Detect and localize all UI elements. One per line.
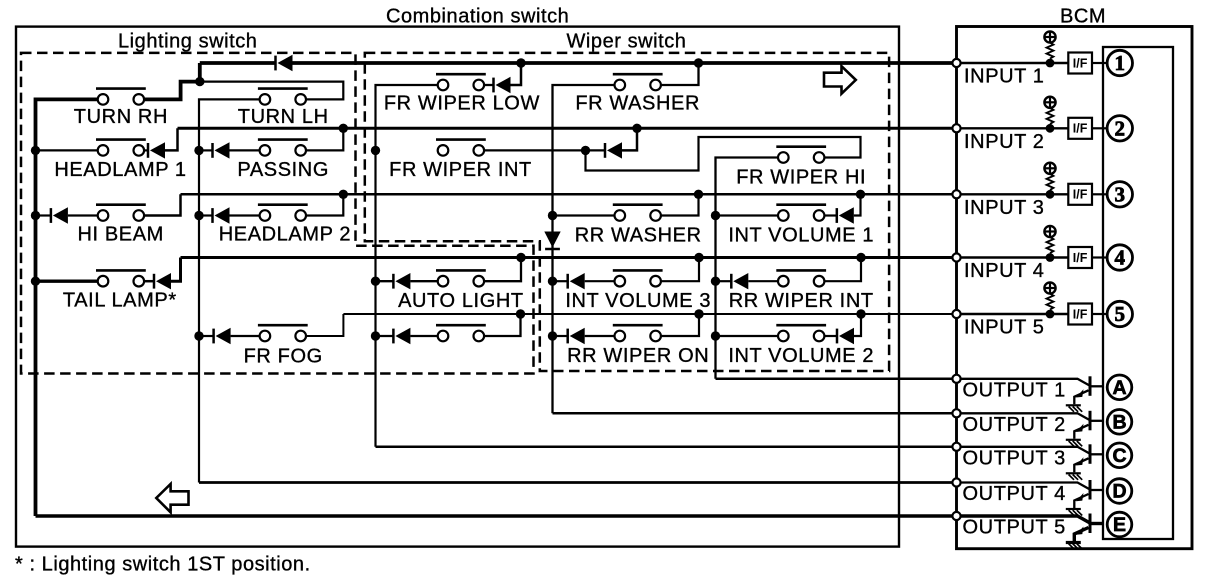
svg-text:INPUT 3: INPUT 3 xyxy=(964,197,1045,219)
svg-text:TURN LH: TURN LH xyxy=(238,106,329,128)
wire bus 5 to INT VOLUME 1 xyxy=(716,214,779,216)
wire RR WASHER up to INPUT 3 xyxy=(661,194,699,215)
pin B circled xyxy=(1107,410,1132,435)
svg-text:OUTPUT 2: OUTPUT 2 xyxy=(963,414,1066,436)
node OUTPUT 4 xyxy=(952,478,960,486)
pin 2 circled xyxy=(1107,116,1132,141)
ground OUTPUT 2 xyxy=(1066,440,1082,447)
wire INT VOLUME 1 to diode xyxy=(824,214,837,216)
wire OUTPUT 1 line xyxy=(716,378,957,381)
junction TURN RH / TURN LH xyxy=(195,77,204,86)
wire bus from FR WIPER HI down to OUTPUT 1 xyxy=(716,158,779,379)
wire diode to AUTO LIGHT xyxy=(410,280,437,282)
diode on INPUT 1 line xyxy=(276,55,293,71)
wire INPUT 3 line xyxy=(181,193,957,196)
ground OUTPUT 4 xyxy=(1066,509,1082,516)
combination switch outer box xyxy=(16,27,899,547)
I/F box INPUT 3 xyxy=(1068,184,1092,205)
diode from INPUT 2 branch xyxy=(605,142,622,158)
wire TURN RH to INPUT 1 junction xyxy=(143,63,199,99)
wire I/F to pin 3 xyxy=(1092,193,1107,195)
transistor OUTPUT 4 xyxy=(957,480,1104,508)
diode before RR WIPER INT xyxy=(731,273,748,289)
wire INPUT 2 line xyxy=(178,127,957,130)
wire PASSING up to INPUT 2 xyxy=(306,128,343,150)
wire diode to HI BEAM xyxy=(68,214,98,216)
wire FR WIPER INT to junction xyxy=(484,149,586,151)
wire INPUT 1 feed from TURN RH junction to diode xyxy=(200,61,276,65)
diode before FR FOG xyxy=(214,328,231,344)
node INPUT 4 xyxy=(952,253,960,261)
junction bus 3 AUTO LIGHT xyxy=(371,277,380,286)
switch TURN RH xyxy=(96,89,146,105)
svg-text:I/F: I/F xyxy=(1073,307,1088,321)
junction power on INPUT 1 xyxy=(1046,59,1055,68)
wire HI BEAM up to INPUT 3 xyxy=(143,194,180,215)
junction bus 5 INT VOLUME 2 xyxy=(711,331,720,340)
pin 4 circled xyxy=(1107,245,1132,270)
svg-text:E: E xyxy=(1113,514,1126,536)
wire FR WIPER LOW diode up to INPUT 1 xyxy=(511,63,522,85)
wire INPUT 4 inside BCM xyxy=(957,256,1069,258)
svg-text:TAIL LAMP*: TAIL LAMP* xyxy=(63,290,177,312)
svg-text:I/F: I/F xyxy=(1073,56,1088,70)
node OUTPUT 2 xyxy=(952,409,960,417)
junction power on INPUT 2 xyxy=(1046,124,1055,133)
junction left bus TAIL LAMP xyxy=(31,277,40,286)
ground OUTPUT 3 xyxy=(1066,473,1082,480)
junction left bus HI BEAM xyxy=(31,211,40,220)
svg-text:FR WASHER: FR WASHER xyxy=(575,93,700,115)
diode after INT VOLUME 1 xyxy=(837,207,854,223)
transistor OUTPUT 3 xyxy=(957,444,1104,472)
wire bus 2 to FR FOG diode xyxy=(199,335,214,337)
svg-text:A: A xyxy=(1112,377,1126,399)
wire bus 4 to INT VOLUME 3 diode xyxy=(553,280,568,282)
switch FR WIPER INT xyxy=(436,140,486,156)
diode before PASSING xyxy=(213,142,230,158)
junction unlabeled switch on INPUT 5 xyxy=(516,309,525,318)
svg-text:OUTPUT 3: OUTPUT 3 xyxy=(963,447,1066,469)
wire bus 2 to PASSING diode xyxy=(199,149,213,151)
wire FR WASHER up to INPUT 1 xyxy=(661,63,699,85)
svg-text:INPUT 5: INPUT 5 xyxy=(964,317,1045,339)
switch FR WASHER xyxy=(613,74,663,90)
wire I/F to pin 5 xyxy=(1092,313,1107,315)
diode after TAIL LAMP xyxy=(154,273,171,289)
svg-text:INT VOLUME 1: INT VOLUME 1 xyxy=(728,225,874,247)
junction bus 5 RR WIPER INT xyxy=(711,277,720,286)
Lighting switch dashed box xyxy=(21,53,534,374)
wire INT VOLUME 2 diode up to INPUT 5 xyxy=(854,314,861,336)
switch HI BEAM xyxy=(96,205,146,221)
junction RR WASHER on INPUT 3 xyxy=(694,190,703,199)
junction power on INPUT 3 xyxy=(1046,190,1055,199)
wire OUTPUT 2 line xyxy=(553,412,957,415)
diode before HI BEAM xyxy=(51,207,68,223)
wire junction to diode bar xyxy=(586,149,606,151)
junction bus 4 RR WIPER ON xyxy=(548,331,557,340)
wire bus 3 to AUTO LIGHT diode xyxy=(376,280,394,282)
power symbol INPUT 1 xyxy=(1044,31,1057,59)
wire diode to RR WIPER INT xyxy=(748,280,778,282)
wire INPUT 5 inside BCM xyxy=(957,313,1069,315)
svg-text:INPUT 2: INPUT 2 xyxy=(964,131,1045,153)
svg-text:INT VOLUME 2: INT VOLUME 2 xyxy=(728,345,874,367)
junction diode branch on INPUT 2 xyxy=(632,124,641,133)
svg-text:C: C xyxy=(1112,445,1126,467)
switch RR WIPER INT xyxy=(776,270,826,286)
junction power on INPUT 5 xyxy=(1046,310,1055,319)
power symbol INPUT 3 xyxy=(1044,162,1057,190)
svg-text:* : Lighting switch 1ST positi: * : Lighting switch 1ST position. xyxy=(15,554,311,576)
node OUTPUT 3 xyxy=(952,443,960,451)
wire bus 3 to lower switch diode xyxy=(376,335,394,337)
svg-text:TURN RH: TURN RH xyxy=(74,106,168,128)
wire I/F to pin 2 xyxy=(1092,127,1107,129)
switch TAIL LAMP xyxy=(96,270,146,286)
svg-text:RR WIPER ON: RR WIPER ON xyxy=(567,345,709,367)
transistor OUTPUT 1 xyxy=(957,376,1104,404)
wire diode to INT VOLUME 3 xyxy=(585,280,615,282)
ground OUTPUT 5 xyxy=(1066,543,1082,550)
wire INPUT 1 line to BCM xyxy=(293,61,957,65)
diode after INT VOLUME 2 xyxy=(837,328,854,344)
wire bus from TURN LH down to OUTPUT 4 xyxy=(199,99,260,482)
switch unlabeled (auto light 2) xyxy=(436,325,486,341)
junction bus 3 lower switch xyxy=(371,331,380,340)
wire bus 4 to RR WASHER xyxy=(553,214,615,216)
junction HEADLAMP 2 on INPUT 3 xyxy=(339,190,348,199)
svg-text:FR WIPER HI: FR WIPER HI xyxy=(736,167,866,189)
svg-text:FR WIPER INT: FR WIPER INT xyxy=(389,159,532,181)
junction bus 4 RR WASHER xyxy=(548,211,557,220)
wire bus 4 to RR WIPER ON diode xyxy=(553,335,568,337)
junction bus 4 INT VOLUME 3 xyxy=(548,277,557,286)
node INPUT 5 xyxy=(952,310,960,318)
pin 3 circled xyxy=(1107,182,1132,207)
svg-text:3: 3 xyxy=(1115,182,1126,206)
switch FR WIPER LOW xyxy=(436,74,486,90)
svg-text:INPUT 4: INPUT 4 xyxy=(964,260,1045,282)
wire INPUT 3 inside BCM xyxy=(957,193,1069,195)
power symbol INPUT 5 xyxy=(1044,282,1057,310)
wire left bus to TAIL LAMP xyxy=(36,280,98,283)
switch INT VOLUME 2 xyxy=(776,325,826,341)
switch TURN LH xyxy=(258,89,308,105)
wire bus from FR WASHER down to OUTPUT 2 xyxy=(553,85,615,413)
switch FR FOG xyxy=(258,325,308,341)
junction PASSING on INPUT 2 xyxy=(339,124,348,133)
svg-text:HI BEAM: HI BEAM xyxy=(77,224,163,246)
wire bus 5 to RR WIPER INT diode xyxy=(716,280,732,282)
wire RR WIPER INT up to INPUT 4 xyxy=(824,258,861,282)
switch HEADLAMP 1 xyxy=(96,140,146,156)
svg-text:Combination switch: Combination switch xyxy=(386,6,569,28)
node OUTPUT 5 xyxy=(952,512,960,520)
wire diode branch up to INPUT 2 xyxy=(622,128,637,150)
svg-text:5: 5 xyxy=(1115,302,1126,326)
junction INT VOLUME 2 on INPUT 5 xyxy=(856,309,865,318)
wire link junction to FR WIPER HI xyxy=(586,137,861,171)
node OUTPUT 1 xyxy=(952,375,960,383)
wire diode to PASSING xyxy=(230,149,260,151)
wire diode to unlabeled switch xyxy=(410,335,437,337)
flow arrow left (bottom) xyxy=(156,484,188,512)
BCM outer box xyxy=(957,27,1193,549)
junction FR WIPER INT node xyxy=(581,146,590,155)
diode before RR WIPER ON xyxy=(568,328,585,344)
wire HEADLAMP 1 to diode xyxy=(143,149,148,151)
BCM inner pin box xyxy=(1103,47,1173,539)
switch INT VOLUME 1 xyxy=(776,205,826,221)
I/F box INPUT 4 xyxy=(1068,247,1092,268)
svg-text:D: D xyxy=(1112,481,1126,503)
wire diode to RR WIPER ON xyxy=(585,335,615,337)
switch RR WASHER xyxy=(613,205,663,221)
ground OUTPUT 1 xyxy=(1066,405,1082,412)
switch INT VOLUME 3 xyxy=(613,270,663,286)
svg-text:RR WASHER: RR WASHER xyxy=(575,225,702,247)
svg-text:AUTO LIGHT: AUTO LIGHT xyxy=(398,290,524,312)
wire INT VOLUME 2 to diode xyxy=(824,335,837,337)
wire OUTPUT 5 line xyxy=(36,514,957,518)
wire unlabeled switch up to INPUT 5 xyxy=(484,314,521,336)
junction RR WIPER ON on INPUT 5 xyxy=(694,309,703,318)
junction FR WIPER LOW on INPUT 1 xyxy=(516,58,525,67)
svg-text:1: 1 xyxy=(1115,51,1126,75)
junction power on INPUT 4 xyxy=(1046,253,1055,262)
flow arrow right (wiper switch) xyxy=(824,66,856,94)
wire AUTO LIGHT up to INPUT 4 xyxy=(484,258,521,282)
svg-text:HEADLAMP 2: HEADLAMP 2 xyxy=(219,224,351,246)
wire RR WIPER ON up to INPUT 5 xyxy=(661,314,699,336)
wire HEADLAMP 1 diode up to INPUT 2 xyxy=(165,128,178,150)
I/F box INPUT 1 xyxy=(1068,53,1092,74)
wire diode to FR FOG xyxy=(231,335,260,337)
wire INPUT 1 inside BCM xyxy=(957,62,1069,64)
wire loop to TURN LH xyxy=(200,82,343,100)
junction INT VOLUME 1 on INPUT 3 xyxy=(856,190,865,199)
wire left bus to HEADLAMP 1 xyxy=(36,149,98,151)
wire FR FOG up to INPUT 5 xyxy=(306,314,343,336)
junction bus 2 FR FOG xyxy=(194,331,203,340)
wire INT VOLUME 1 diode up to INPUT 3 xyxy=(854,194,861,215)
switch AUTO LIGHT xyxy=(436,270,486,286)
I/F box INPUT 5 xyxy=(1068,304,1092,325)
svg-text:PASSING: PASSING xyxy=(237,159,329,181)
junction left bus HEADLAMP 1 xyxy=(31,146,40,155)
svg-text:2: 2 xyxy=(1115,116,1126,140)
diode after HEADLAMP 1 xyxy=(148,142,165,158)
diode after FR WIPER LOW xyxy=(494,77,511,93)
wire OUTPUT 4 line xyxy=(199,481,957,484)
wire left bus from TURN RH down to OUTPUT 5 xyxy=(36,99,98,516)
Wiper switch dashed box xyxy=(365,53,889,371)
diode before HEADLAMP 2 xyxy=(213,207,230,223)
pin C circled xyxy=(1107,443,1132,468)
wire I/F to pin 4 xyxy=(1092,256,1107,258)
svg-text:RR WIPER INT: RR WIPER INT xyxy=(729,290,874,312)
node INPUT 2 xyxy=(952,124,960,132)
I/F box INPUT 2 xyxy=(1068,118,1092,139)
wire FR WIPER LOW to diode xyxy=(484,84,494,86)
svg-text:HEADLAMP 1: HEADLAMP 1 xyxy=(54,159,186,181)
wire bus from FR WIPER LOW down to OUTPUT 3 xyxy=(376,85,438,447)
junction bus 2 PASSING xyxy=(194,146,203,155)
diode before INT VOLUME 3 xyxy=(568,273,585,289)
wire HEADLAMP 2 up to INPUT 3 xyxy=(306,194,343,215)
svg-text:BCM: BCM xyxy=(1060,6,1106,28)
wire bus 5 to INT VOLUME 2 xyxy=(716,335,779,337)
switch PASSING xyxy=(258,140,308,156)
power symbol INPUT 2 xyxy=(1044,96,1057,124)
junction bus 5 INT VOLUME 1 xyxy=(711,211,720,220)
wire INPUT 2 inside BCM xyxy=(957,127,1069,129)
svg-text:OUTPUT 1: OUTPUT 1 xyxy=(963,379,1066,401)
wire left bus to HI BEAM diode xyxy=(36,214,51,216)
pin A circled xyxy=(1107,375,1132,400)
node INPUT 1 xyxy=(952,59,960,67)
power symbol INPUT 4 xyxy=(1044,225,1057,253)
diode pointing down on FR WASHER bus xyxy=(544,232,560,250)
svg-text:B: B xyxy=(1112,411,1126,433)
svg-text:I/F: I/F xyxy=(1073,188,1088,202)
diode before unlabeled switch xyxy=(393,328,410,344)
junction AUTO LIGHT on INPUT 4 xyxy=(516,253,525,262)
svg-text:INPUT 1: INPUT 1 xyxy=(964,66,1045,88)
wire INPUT 5 line xyxy=(343,313,956,315)
wire I/F to pin 1 xyxy=(1092,62,1107,64)
svg-text:FR WIPER LOW: FR WIPER LOW xyxy=(384,93,540,115)
switch RR WIPER ON xyxy=(613,325,663,341)
junction INT VOLUME 3 on INPUT 4 xyxy=(694,253,703,262)
pin 5 circled xyxy=(1107,301,1132,326)
svg-text:Lighting switch: Lighting switch xyxy=(118,31,257,53)
wire bus 2 to HEADLAMP 2 diode xyxy=(199,214,213,216)
switch FR WIPER HI xyxy=(776,147,826,163)
svg-text:OUTPUT 4: OUTPUT 4 xyxy=(963,483,1066,505)
svg-text:4: 4 xyxy=(1115,246,1126,270)
svg-text:I/F: I/F xyxy=(1073,122,1088,136)
transistor OUTPUT 5 xyxy=(957,514,1104,542)
svg-text:FR FOG: FR FOG xyxy=(244,345,323,367)
pin E circled xyxy=(1107,512,1132,537)
wire diode to HEADLAMP 2 xyxy=(230,214,260,216)
wire INPUT 4 line xyxy=(181,256,957,259)
pin 1 circled xyxy=(1107,50,1132,75)
junction bus 3 FR WIPER INT xyxy=(371,146,380,155)
svg-text:I/F: I/F xyxy=(1073,251,1088,265)
wire OUTPUT 3 line xyxy=(376,446,957,449)
junction bus 2 HEADLAMP 2 xyxy=(194,211,203,220)
svg-text:INT VOLUME 3: INT VOLUME 3 xyxy=(565,290,711,312)
junction FR WASHER on INPUT 1 xyxy=(694,58,703,67)
wire TAIL LAMP to diode xyxy=(143,280,154,283)
node INPUT 3 xyxy=(952,190,960,198)
wire TAIL LAMP diode up to INPUT 4 xyxy=(171,258,181,282)
junction RR WIPER INT on INPUT 4 xyxy=(856,253,865,262)
svg-text:OUTPUT 5: OUTPUT 5 xyxy=(963,517,1066,539)
svg-text:Wiper switch: Wiper switch xyxy=(567,31,687,53)
switch HEADLAMP 2 xyxy=(258,205,308,221)
transistor OUTPUT 2 xyxy=(957,411,1104,439)
diode before AUTO LIGHT xyxy=(393,273,410,289)
pin D circled xyxy=(1107,479,1132,504)
wire INT VOLUME 3 up to INPUT 4 xyxy=(661,258,699,282)
